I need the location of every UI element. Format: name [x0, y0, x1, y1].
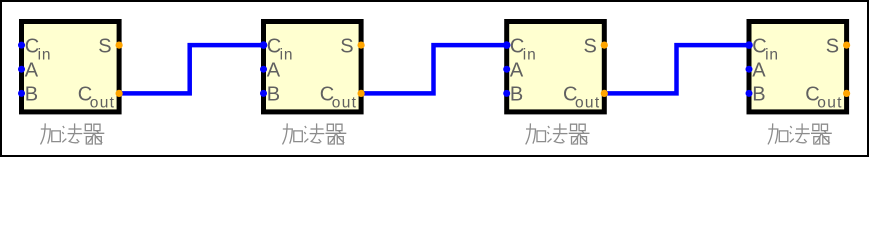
- svg-text:S: S: [98, 35, 111, 57]
- svg-text:in: in: [38, 47, 52, 64]
- svg-text:B: B: [25, 83, 38, 105]
- svg-text:A: A: [25, 60, 39, 82]
- svg-text:out: out: [90, 95, 115, 112]
